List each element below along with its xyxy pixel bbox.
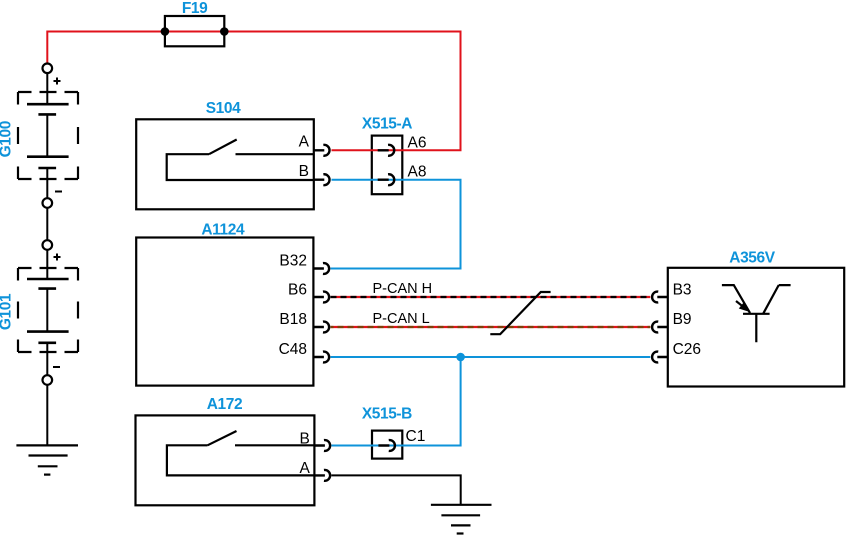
- svg-text:X515-B: X515-B: [362, 406, 412, 423]
- svg-text:C48: C48: [279, 341, 307, 358]
- svg-text:A: A: [299, 134, 310, 151]
- svg-text:A: A: [299, 460, 310, 477]
- svg-text:B: B: [299, 431, 309, 448]
- svg-text:A356V: A356V: [729, 250, 775, 267]
- svg-text:A8: A8: [408, 164, 427, 181]
- svg-text:A6: A6: [408, 135, 427, 152]
- svg-text:B9: B9: [673, 311, 692, 328]
- svg-text:S104: S104: [206, 100, 241, 117]
- svg-text:P-CAN L: P-CAN L: [373, 311, 430, 327]
- svg-text:B6: B6: [288, 282, 307, 299]
- svg-text:G100: G100: [0, 121, 15, 157]
- svg-text:B18: B18: [279, 311, 307, 328]
- svg-text:C1: C1: [406, 428, 426, 445]
- svg-text:G101: G101: [0, 293, 15, 330]
- svg-text:X515-A: X515-A: [362, 116, 412, 133]
- svg-text:P-CAN H: P-CAN H: [373, 281, 433, 297]
- svg-text:A172: A172: [207, 396, 242, 413]
- svg-text:A1124: A1124: [201, 222, 245, 239]
- svg-text:F19: F19: [182, 0, 208, 17]
- svg-text:C26: C26: [673, 341, 701, 358]
- svg-text:B32: B32: [279, 253, 307, 270]
- svg-text:B: B: [299, 163, 309, 180]
- svg-text:B3: B3: [673, 282, 692, 299]
